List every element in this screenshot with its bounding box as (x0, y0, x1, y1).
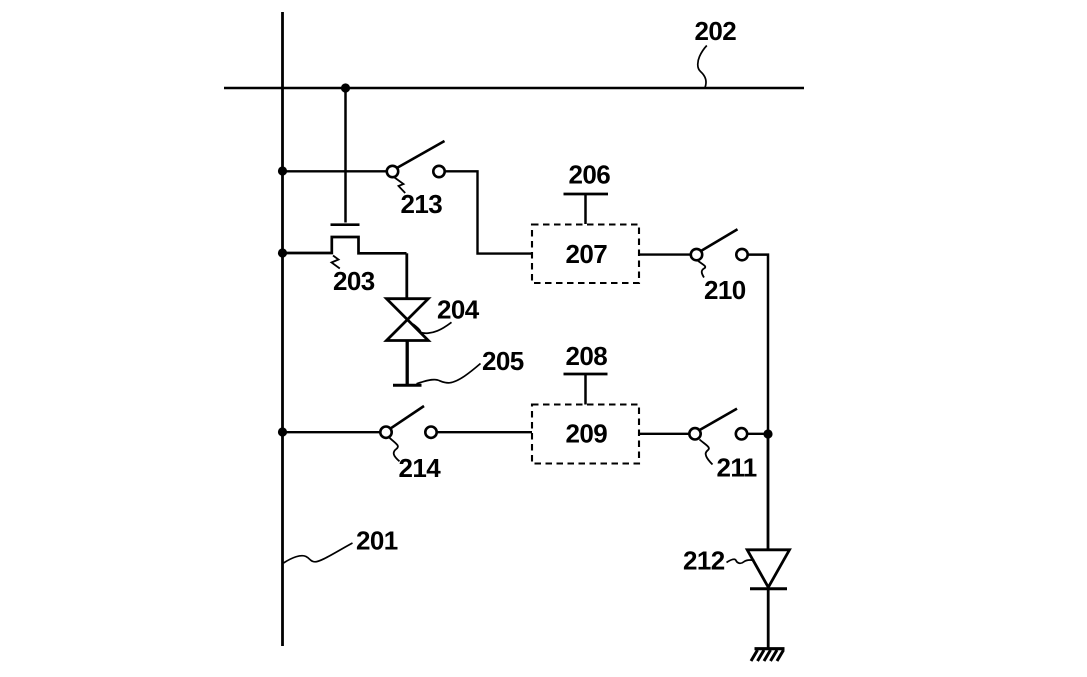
wire gate stem from 202 to transistor 203 (344, 88, 347, 223)
svg-text:211: 211 (717, 453, 757, 483)
node junction on line 201 at switch 214 branch (278, 427, 287, 436)
svg-text:207: 207 (566, 239, 608, 269)
leader line for 211 (700, 440, 713, 465)
block 207 (dashed box) (532, 225, 639, 284)
transistor 203 gate electrode bar (331, 223, 360, 226)
leader line for 212 (727, 559, 755, 563)
LED / diode 212 triangle (747, 550, 789, 588)
node junction on line 201 at transistor 203 (278, 248, 287, 257)
svg-text:205: 205 (482, 346, 524, 376)
terminal 205 bar (393, 384, 422, 387)
wire from 204 to terminal 205 (406, 341, 409, 384)
capacitor/terminal 206 (564, 194, 609, 224)
wire horizontal scan line 202 (224, 87, 804, 90)
node junction on line 201 at switch 213 branch (278, 166, 287, 175)
wire right rail down to LED 212 (767, 434, 770, 549)
light-emitting element 204 (bowtie symbol) (387, 299, 429, 341)
wire transistor 203 drain down to element 204 (405, 253, 408, 298)
svg-text:204: 204 (437, 295, 480, 325)
svg-text:206: 206 (569, 160, 611, 190)
svg-text:210: 210 (704, 275, 746, 305)
wire from 212 to ground (767, 589, 770, 648)
leader line for 203 (332, 256, 340, 269)
wire from switch 210 to right vertical rail (748, 255, 768, 434)
svg-text:202: 202 (695, 16, 737, 46)
switch 210 (691, 229, 748, 260)
svg-text:214: 214 (399, 453, 442, 483)
wire from block 209 to switch 211 (639, 433, 690, 435)
svg-text:201: 201 (356, 526, 398, 556)
leader line for 210 (698, 261, 706, 278)
svg-text:203: 203 (333, 266, 375, 296)
leader line for 213 (395, 178, 406, 194)
node junction on line 202 (341, 83, 350, 92)
capacitor/terminal 208 (564, 374, 608, 405)
block 209 (dashed box) (532, 405, 639, 464)
leader line for 205 (417, 364, 481, 384)
leader line for 214 (390, 438, 400, 462)
leader line for 201 (284, 543, 353, 563)
leader line for 204 (413, 322, 452, 333)
wire from switch 213 to block 207 (445, 171, 532, 253)
switch 211 (689, 409, 747, 440)
transistor 203 channel (source-drain path) (283, 237, 407, 253)
wire from 201 to switch 213 (283, 170, 387, 172)
ground symbol (751, 649, 785, 661)
svg-text:212: 212 (683, 546, 725, 576)
wire from 201 to switch 214 (283, 431, 381, 433)
switch 213 (387, 141, 445, 177)
wire from block 207 to switch 210 (639, 253, 691, 255)
wire from switch 211 to right vertical rail (748, 433, 769, 435)
wire vertical signal line 201 (281, 12, 284, 646)
svg-text:213: 213 (401, 189, 443, 219)
svg-text:208: 208 (566, 341, 608, 371)
svg-text:209: 209 (566, 419, 608, 449)
node junction on right rail (763, 429, 772, 438)
switch 214 (380, 406, 436, 438)
wire from switch 214 to block 209 (437, 431, 532, 433)
leader line for 202 (698, 46, 707, 88)
LED / diode 212 cathode bar (750, 587, 787, 590)
